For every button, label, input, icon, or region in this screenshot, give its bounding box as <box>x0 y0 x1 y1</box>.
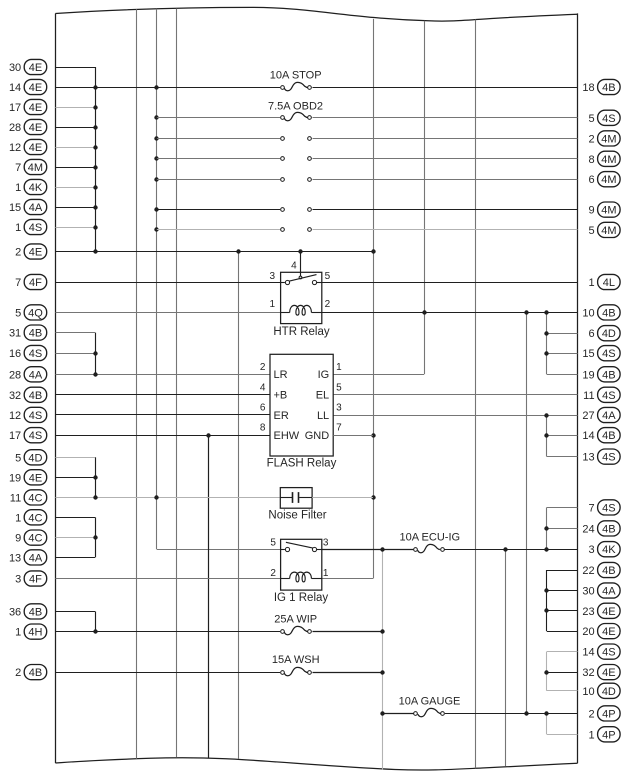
relay FLASH (box, pins 1-8) <box>260 354 342 456</box>
svg-text:7: 7 <box>588 502 594 514</box>
svg-text:18: 18 <box>582 82 594 94</box>
junction x=95 y=107.0 <box>93 105 97 109</box>
svg-text:7: 7 <box>336 423 342 434</box>
connector pin 5 (4M) right, wire <box>313 222 621 237</box>
svg-text:4D: 4D <box>602 686 616 698</box>
svg-text:1: 1 <box>336 362 342 373</box>
junction x=95 y=631.6 <box>93 629 97 633</box>
right bus 3 4K group <box>546 507 548 549</box>
connector pin 1 (4S) left, wire <box>15 219 95 234</box>
connector pin 9 (4M) right, wire <box>313 202 621 217</box>
connector pin 6 (4M) right, wire <box>313 172 621 187</box>
svg-text:14: 14 <box>582 647 594 659</box>
svg-text:11: 11 <box>10 492 21 504</box>
svg-text:2: 2 <box>260 362 266 373</box>
junction x=157 y=87.0 <box>154 85 158 89</box>
wire vertical x=383 fuse feed <box>382 549 384 769</box>
enclosure bottom torn edge <box>55 758 577 770</box>
right bus 27 4A group <box>546 415 548 457</box>
junction x=157 y=209.6 <box>154 207 158 211</box>
junction 2 4E row x=300 (HTR pin4 tap) <box>298 249 302 253</box>
svg-text:4E: 4E <box>602 667 615 679</box>
svg-text:4E: 4E <box>29 62 42 74</box>
svg-text:4F: 4F <box>29 574 42 586</box>
junction right bus y=333.2 <box>544 331 548 335</box>
wire vertical x=424 from top to FLASH IG pin <box>424 21 426 375</box>
connector pin 14 (4B) right, wire <box>547 428 620 443</box>
enclosure right border <box>577 13 579 763</box>
svg-text:15: 15 <box>582 348 594 360</box>
svg-text:4S: 4S <box>602 390 615 402</box>
fuse 10A STOP <box>270 70 322 91</box>
svg-text:4S: 4S <box>602 452 615 464</box>
connector pin 5 (4Q) left, wire <box>15 305 281 320</box>
wire vertical x=475 top to bottom <box>475 20 477 769</box>
svg-text:4C: 4C <box>28 533 42 545</box>
svg-text:17: 17 <box>9 430 21 442</box>
svg-text:4M: 4M <box>601 225 616 237</box>
svg-text:4M: 4M <box>601 205 616 217</box>
svg-text:17: 17 <box>9 102 21 114</box>
svg-text:14: 14 <box>9 82 21 94</box>
junction x=383 y=672 (WSH row) <box>380 670 384 674</box>
svg-text:1: 1 <box>15 182 21 194</box>
fuse 25A WIP <box>274 614 317 635</box>
svg-text:+B: +B <box>274 390 288 402</box>
connector pin 10 (4B) right, wire <box>322 305 620 320</box>
connector pin 17 (4E) left, wire <box>9 99 95 114</box>
svg-text:4C: 4C <box>28 492 42 504</box>
wire vertical x=239 from 2 4E row to bottom <box>238 252 240 760</box>
label HTR Relay <box>273 326 329 338</box>
connector pin 1 (4H) left, wire <box>15 624 280 639</box>
junction right bus y=610.8 <box>544 608 548 612</box>
svg-text:28: 28 <box>9 122 21 134</box>
svg-text:Noise Filter: Noise Filter <box>268 509 326 521</box>
junction right bus y=528.4 <box>544 526 548 530</box>
right bus 14 4S group <box>546 652 548 691</box>
wire noise filter out to x=373 <box>312 497 373 499</box>
wire x157 to fuse slot y=158.8 <box>157 158 280 160</box>
svg-text:HTR Relay: HTR Relay <box>273 326 329 338</box>
junction x=95 y=251.5 <box>93 249 97 253</box>
svg-text:4A: 4A <box>29 552 43 564</box>
svg-text:4B: 4B <box>602 565 615 577</box>
svg-text:6: 6 <box>588 174 594 186</box>
svg-text:12: 12 <box>9 410 21 422</box>
wire WSH fuse output to x=383 <box>313 672 383 674</box>
connector pin 16 (4S) left, wire <box>9 345 95 360</box>
connector pin 15 (4S) right, wire <box>547 346 620 361</box>
svg-text:4E: 4E <box>29 472 42 484</box>
junction x=526 y=713 <box>524 711 528 715</box>
svg-text:10A ECU-IG: 10A ECU-IG <box>400 531 461 543</box>
connector pin 2 (4P) right, wire <box>445 706 620 721</box>
svg-text:10A GAUGE: 10A GAUGE <box>399 696 461 708</box>
svg-text:4E: 4E <box>29 82 42 94</box>
connector pin 28 (4A) left, wire <box>9 367 270 382</box>
svg-text:4F: 4F <box>29 277 42 289</box>
svg-text:4K: 4K <box>29 182 43 194</box>
svg-text:3: 3 <box>588 544 594 556</box>
svg-text:23: 23 <box>582 606 594 618</box>
connector pin 30 (4E) left, wire <box>9 59 95 74</box>
wire vertical bus x=137 <box>136 9 138 759</box>
connector pin 19 (4E) left, wire <box>9 470 95 485</box>
svg-text:22: 22 <box>582 565 594 577</box>
svg-text:32: 32 <box>582 667 594 679</box>
svg-text:25A WIP: 25A WIP <box>274 614 317 626</box>
junction x=95 y=147.0 <box>93 145 97 149</box>
svg-text:1: 1 <box>588 277 594 289</box>
label FLASH Relay <box>267 458 337 470</box>
connector pin 7 (4F) left, wire <box>15 274 281 289</box>
svg-text:2: 2 <box>588 133 594 145</box>
connector pin 1 (4K) left, wire <box>15 179 95 194</box>
connector pin 7 (4M) left, wire <box>15 159 95 174</box>
wire vertical x=209 from 17 4S row to bottom <box>208 435 210 758</box>
svg-text:4P: 4P <box>602 729 615 741</box>
right bus 2 4P group <box>546 713 548 734</box>
wire x157 to fuse slot y=229.9 <box>157 229 280 231</box>
svg-text:4H: 4H <box>28 627 42 639</box>
svg-text:27: 27 <box>582 410 594 422</box>
junction x=383 y=631 (WIP row) <box>380 629 384 633</box>
svg-text:2: 2 <box>15 247 21 259</box>
svg-text:4A: 4A <box>602 410 616 422</box>
connector pin 5 (4D) left, wire <box>15 450 95 465</box>
svg-text:ER: ER <box>274 410 289 422</box>
svg-text:4B: 4B <box>602 523 615 535</box>
junction x=157 y=179.2 <box>154 177 158 181</box>
connector pin 23 (4E) right, wire <box>547 603 620 618</box>
svg-text:5: 5 <box>15 307 21 319</box>
connector pin 15 (4A) left, wire <box>9 199 95 214</box>
left bus x=95 rows 5 4D..11 4C <box>95 457 97 497</box>
svg-text:4K: 4K <box>602 544 616 556</box>
svg-text:4: 4 <box>260 382 266 393</box>
wire IG1 pin3 to ECU-IG fuse <box>322 549 414 551</box>
junction right bus y=312.4 <box>544 310 548 314</box>
connector pin 2 (4E) left, wire <box>15 244 373 259</box>
left bus x=95 rows 1 4C..13 4A <box>95 517 97 557</box>
right bus 10 4B group <box>546 312 548 374</box>
junction x=526 y=312 <box>524 310 528 314</box>
junction right bus y=415.0 <box>544 413 548 417</box>
connector pin 11 (4S) right, wire <box>333 387 620 402</box>
svg-text:15A WSH: 15A WSH <box>272 654 320 666</box>
svg-text:4S: 4S <box>29 222 42 234</box>
wire vertical x=373 from top to IG1 relay pin 1 <box>373 19 375 579</box>
svg-text:4S: 4S <box>602 502 615 514</box>
wire x=373 corner to IG1 relay pin 1 <box>322 578 373 580</box>
connector pin 3 (4F) left, wire <box>15 571 281 586</box>
svg-text:4L: 4L <box>603 277 615 289</box>
svg-text:5: 5 <box>270 538 276 549</box>
connector pin 3 (4K) right, wire <box>444 542 620 557</box>
svg-text:4E: 4E <box>602 606 615 618</box>
junction x=157 y=158.8 <box>154 156 158 160</box>
svg-text:19: 19 <box>9 472 21 484</box>
svg-text:14: 14 <box>582 430 594 442</box>
wire vertical bus x=177 <box>176 9 178 758</box>
svg-text:GND: GND <box>305 430 330 442</box>
connector pin 32 (4E) right, wire <box>547 665 620 680</box>
svg-text:4E: 4E <box>29 142 42 154</box>
junction x=209 y=435 (17 4S row) <box>206 433 210 437</box>
svg-text:2: 2 <box>325 299 331 310</box>
connector pin 2 (4M) right, wire <box>313 131 621 146</box>
fuse slot pair y=138 <box>281 137 312 141</box>
svg-text:30: 30 <box>9 62 21 74</box>
svg-text:1: 1 <box>15 222 21 234</box>
svg-text:FLASH Relay: FLASH Relay <box>267 458 337 470</box>
svg-text:1: 1 <box>588 729 594 741</box>
connector pin 8 (4M) right, wire <box>313 151 621 166</box>
enclosure top torn edge <box>55 7 577 21</box>
connector pin 32 (4B) left, wire <box>9 387 270 402</box>
junction right bus y=672.1 <box>544 670 548 674</box>
svg-text:4S: 4S <box>29 410 42 422</box>
junction x=95 y=374.3 <box>93 372 97 376</box>
wire x157 to fuse slot y=179.2 <box>157 179 280 181</box>
connector pin 20 (4E) right, wire <box>547 624 620 639</box>
svg-text:EL: EL <box>316 390 329 402</box>
connector pin 12 (4E) left, wire <box>9 139 95 154</box>
connector pin 12 (4S) left, wire <box>9 407 270 422</box>
svg-text:16: 16 <box>9 348 21 360</box>
svg-text:4C: 4C <box>28 512 42 524</box>
svg-text:IG 1 Relay: IG 1 Relay <box>274 592 329 604</box>
svg-text:2: 2 <box>15 667 21 679</box>
svg-text:12: 12 <box>9 142 21 154</box>
fuse 15A WSH <box>272 654 320 676</box>
junction x=373 y=497 (noise filter out) <box>371 495 375 499</box>
svg-text:4M: 4M <box>601 133 616 145</box>
junction 2 4E row x=239 <box>236 249 240 253</box>
junction x=373 y=435 (FLASH GND) <box>371 433 375 437</box>
connector pin 14 (4S) right, wire <box>547 644 620 659</box>
svg-text:LR: LR <box>274 369 288 381</box>
svg-text:4S: 4S <box>602 113 615 125</box>
svg-text:4S: 4S <box>29 348 42 360</box>
wire vertical x=506 from ECU-IG row to bottom <box>505 549 507 766</box>
svg-text:4: 4 <box>291 260 297 271</box>
wire vertical x=526 from 10 4B row to GAUGE row <box>526 312 528 713</box>
wire FLASH relay IG pin 1 to x=424 corner <box>333 374 424 376</box>
connector pin 27 (4A) right, wire <box>333 407 620 422</box>
enclosure left border <box>55 14 57 764</box>
junction 2 4E row x=373 <box>371 249 375 253</box>
connector pin 30 (4A) right, wire <box>547 583 620 598</box>
junction x=157 y=138.4 <box>154 136 158 140</box>
svg-text:1: 1 <box>15 627 21 639</box>
connector pin 18 (4B) right, wire <box>313 79 621 94</box>
svg-text:7: 7 <box>15 162 21 174</box>
svg-text:7: 7 <box>15 277 21 289</box>
connector pin 5 (4S) right, wire <box>313 110 621 125</box>
svg-text:13: 13 <box>9 552 21 564</box>
svg-text:4B: 4B <box>602 307 615 319</box>
svg-text:4A: 4A <box>29 202 43 214</box>
fuse slot pair y=179 <box>281 178 312 182</box>
svg-text:11: 11 <box>583 390 594 402</box>
label IG 1 Relay <box>274 592 329 604</box>
svg-text:4Q: 4Q <box>28 307 43 319</box>
fuse 7.5A OBD2 <box>268 100 323 120</box>
svg-text:5: 5 <box>588 225 594 237</box>
svg-text:31: 31 <box>9 328 21 340</box>
svg-text:4E: 4E <box>29 102 42 114</box>
svg-text:1: 1 <box>323 568 329 579</box>
svg-text:20: 20 <box>582 626 594 638</box>
junction x=95 y=187.0 <box>93 185 97 189</box>
svg-text:6: 6 <box>260 402 266 413</box>
svg-text:36: 36 <box>9 606 21 618</box>
svg-text:15: 15 <box>9 202 21 214</box>
svg-text:4S: 4S <box>29 430 42 442</box>
junction x=383 y=713 (GAUGE row) <box>380 711 384 715</box>
svg-text:13: 13 <box>582 452 594 464</box>
junction x=506 y=549 <box>503 547 507 551</box>
connector pin 13 (4S) right, wire <box>547 449 620 464</box>
fuse slot pair y=210 <box>281 208 312 212</box>
svg-text:32: 32 <box>9 390 21 402</box>
junction x=95 y=537.6 <box>93 535 97 539</box>
connector pin 36 (4B) left, wire <box>9 604 95 619</box>
junction x=95 y=207.0 <box>93 205 97 209</box>
svg-text:9: 9 <box>588 205 594 217</box>
svg-text:LL: LL <box>317 410 329 422</box>
right bus 22 4B group <box>546 570 548 631</box>
svg-text:IG: IG <box>318 369 330 381</box>
svg-text:4S: 4S <box>602 647 615 659</box>
junction x=424 y=312 (10 4B row) <box>422 310 426 314</box>
connector pin 7 (4S) right, wire <box>547 500 620 515</box>
svg-text:4B: 4B <box>602 369 615 381</box>
connector pin 1 (4L) right, wire <box>322 274 620 289</box>
connector pin 17 (4S) left, wire <box>9 428 270 443</box>
svg-text:8: 8 <box>260 423 266 434</box>
connector pin 10 (4D) right, wire <box>547 683 620 698</box>
svg-text:2: 2 <box>270 568 276 579</box>
svg-text:4B: 4B <box>29 390 42 402</box>
left bus x=95 rows 30 4E..2 4E <box>95 67 97 252</box>
svg-text:5: 5 <box>325 271 331 282</box>
junction x=95 y=127.0 <box>93 125 97 129</box>
junction x=157 y=117.8 <box>154 115 158 119</box>
svg-text:4D: 4D <box>602 328 616 340</box>
svg-text:24: 24 <box>582 523 594 535</box>
svg-text:4E: 4E <box>29 247 42 259</box>
fuse 10A GAUGE <box>399 696 461 717</box>
wire x157 to fuse slot y=138.4 <box>157 138 280 140</box>
capacitor noise filter (box + plates) <box>280 488 312 509</box>
svg-text:19: 19 <box>582 369 594 381</box>
svg-text:10A STOP: 10A STOP <box>270 70 322 82</box>
svg-text:EHW: EHW <box>274 430 300 442</box>
svg-text:4E: 4E <box>602 626 615 638</box>
connector pin 1 (4C) left, wire <box>15 510 95 525</box>
connector pin 31 (4B) left, wire <box>9 325 95 340</box>
junction right bus y=435.2 <box>544 433 548 437</box>
svg-text:1: 1 <box>270 299 276 310</box>
svg-text:4D: 4D <box>28 452 42 464</box>
svg-text:4B: 4B <box>29 606 42 618</box>
connector pin 6 (4D) right, wire <box>547 326 620 341</box>
svg-text:4S: 4S <box>602 348 615 360</box>
junction x=95 y=227.0 <box>93 225 97 229</box>
connector pin 1 (4P) right, wire <box>547 727 620 742</box>
svg-text:4M: 4M <box>601 174 616 186</box>
junction x=383 y=549 (ECU-IG row) <box>380 547 384 551</box>
relay HTR (box, contacts, coil, pins 1-5) <box>270 252 331 324</box>
junction right bus y=590.5 <box>544 588 548 592</box>
fuse slot pair y=230 <box>281 228 312 232</box>
connector pin 19 (4B) right, wire <box>547 367 620 382</box>
wire x157 to fuse slot y=117.8 <box>157 117 280 119</box>
svg-text:2: 2 <box>588 708 594 720</box>
svg-text:4B: 4B <box>602 82 615 94</box>
wire x=157 bus corner to IG1 relay pin 5 <box>157 549 281 551</box>
wire x=383 to GAUGE fuse <box>383 713 414 715</box>
svg-text:4B: 4B <box>602 430 615 442</box>
svg-text:4M: 4M <box>601 154 616 166</box>
junction x=95 y=87.0 <box>93 85 97 89</box>
wire vertical bus x=157 (fuse feed bus) <box>156 9 158 549</box>
label Noise Filter <box>268 509 326 521</box>
junction x=157 y=497.4 <box>154 495 158 499</box>
junction x=95 y=497.4 <box>93 495 97 499</box>
svg-text:8: 8 <box>588 154 594 166</box>
svg-text:7.5A OBD2: 7.5A OBD2 <box>268 100 323 112</box>
svg-text:28: 28 <box>9 369 21 381</box>
svg-text:1: 1 <box>15 512 21 524</box>
wire WIP fuse output to x=383 <box>313 631 383 633</box>
left bus x=95 rows 31 4B..28 4A <box>95 333 97 375</box>
svg-text:5: 5 <box>588 113 594 125</box>
svg-text:3: 3 <box>270 271 276 282</box>
svg-text:5: 5 <box>15 452 21 464</box>
fuse 10A ECU-IG <box>400 531 461 552</box>
svg-text:4A: 4A <box>29 369 43 381</box>
junction x=95 y=167.0 <box>93 165 97 169</box>
connector pin 2 (4B) left, wire <box>15 665 280 680</box>
svg-text:4M: 4M <box>28 162 43 174</box>
connector pin 14 (4E) left, wire <box>9 79 280 94</box>
junction x=157 y=229.9 <box>154 227 158 231</box>
wire FLASH GND pin 7 to x=373 <box>333 435 373 437</box>
connector pin 13 (4A) left, wire <box>9 550 95 565</box>
svg-text:4E: 4E <box>29 122 42 134</box>
svg-text:6: 6 <box>588 328 594 340</box>
svg-text:10: 10 <box>582 307 594 319</box>
junction right bus y=713.4 <box>544 711 548 715</box>
svg-text:4A: 4A <box>602 586 616 598</box>
svg-text:3: 3 <box>336 402 342 413</box>
junction right bus y=353.2 <box>544 351 548 355</box>
svg-text:9: 9 <box>15 533 21 545</box>
left bus x=95 rows 36 4B..1 4H <box>95 611 97 631</box>
svg-text:4P: 4P <box>602 708 615 720</box>
connector pin 28 (4E) left, wire <box>9 119 95 134</box>
svg-text:4B: 4B <box>29 328 42 340</box>
fuse slot pair y=159 <box>281 157 312 161</box>
svg-text:10: 10 <box>582 686 594 698</box>
relay IG 1 (box, contacts, coil, pins) <box>270 538 329 591</box>
junction x=95 y=477.3 <box>93 475 97 479</box>
svg-text:5: 5 <box>336 382 342 393</box>
